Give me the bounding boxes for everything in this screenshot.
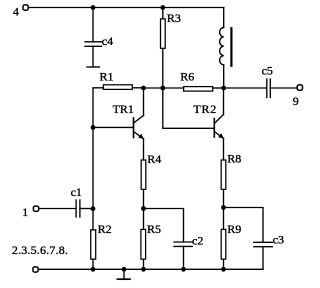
svg-text:c4: c4 [102, 34, 113, 48]
terminal 9 [297, 85, 302, 90]
node R2 bottom [91, 267, 96, 272]
wire left column vertical [92, 127, 94, 229]
svg-text:c5: c5 [262, 64, 273, 78]
svg-text:4: 4 [13, 5, 19, 19]
wire to c5 [224, 87, 267, 89]
node R3 bottom [160, 86, 165, 91]
node coil bottom [221, 86, 226, 91]
resistor R5 [141, 229, 146, 259]
capacitor c4 [85, 42, 102, 47]
svg-text:R5: R5 [147, 222, 161, 236]
wire top rail [29, 7, 223, 9]
resistor R2 [91, 230, 96, 259]
svg-text:R6: R6 [180, 70, 194, 84]
node c1-R2 [91, 206, 96, 211]
wire c3 branch horizontal [224, 208, 264, 243]
wire TR2 emitter vertical [223, 138, 225, 159]
svg-text:R1: R1 [100, 69, 114, 83]
svg-text:R8: R8 [227, 151, 241, 165]
resistor R3 [161, 19, 166, 48]
c4 end bar [87, 66, 100, 68]
node R4-R5 [141, 206, 146, 211]
wire R2 bottom lead [92, 260, 94, 270]
svg-text:c2: c2 [192, 234, 203, 248]
inductor coil [220, 28, 224, 65]
wire TR1 collector vertical [143, 88, 145, 116]
svg-text:c1: c1 [71, 185, 82, 199]
svg-text:TR2: TR2 [193, 102, 217, 116]
wire R1 left vertical top corner [93, 88, 103, 128]
node R5 bottom [141, 267, 146, 272]
capacitor c3 [254, 242, 272, 246]
wire c4 branch lower [92, 46, 94, 67]
node c2 bottom [181, 267, 186, 272]
node c4 top [91, 5, 96, 10]
node R9 bottom [221, 267, 226, 272]
node R3 top [160, 5, 165, 10]
svg-text:c3: c3 [273, 232, 284, 246]
wire R5 top lead [143, 209, 145, 230]
wire R1 right lead [133, 87, 144, 89]
transistor TR1 [134, 116, 144, 140]
capacitor c2 [174, 242, 192, 246]
wire TR2 base vertical [163, 88, 215, 128]
transistor TR2 [214, 115, 224, 139]
wire c2 branch horizontal [144, 209, 184, 243]
wire c4 branch upper [92, 8, 94, 42]
wire R8 bottom lead [223, 190, 225, 208]
resistor R8 [221, 160, 226, 189]
node R1 right [141, 86, 146, 91]
wire R6 left lead [163, 87, 183, 89]
wire R3 top lead [162, 8, 164, 19]
svg-text:R9: R9 [227, 222, 241, 236]
resistor R4 [141, 160, 146, 189]
wire TR2 collector vertical [223, 88, 225, 115]
wire bottom rail [38, 268, 263, 270]
terminal 1 [33, 206, 38, 211]
terminal gnd left [33, 267, 38, 272]
svg-text:1: 1 [22, 205, 28, 219]
resistor R6 [184, 87, 213, 92]
wire R9 top lead [223, 208, 225, 230]
wire c1 to node [80, 208, 93, 210]
wire top rail corner down to coil [223, 8, 225, 28]
svg-text:2.3.5.6.7.8.: 2.3.5.6.7.8. [12, 243, 68, 257]
resistor R1 [103, 85, 132, 90]
capacitor c5 [267, 79, 271, 98]
wire row R1-to-R3col [144, 87, 163, 89]
wire R4 bottom lead [143, 190, 145, 209]
wire TR1 emitter vertical [143, 139, 145, 160]
capacitor c1 [76, 200, 80, 217]
svg-text:9: 9 [293, 94, 299, 108]
svg-text:R2: R2 [98, 222, 112, 236]
wire terminal1 to c1 [40, 208, 77, 210]
wire TR1 base [93, 126, 134, 128]
svg-text:TR1: TR1 [113, 102, 134, 116]
wire R5 bottom lead [143, 260, 145, 270]
svg-text:R4: R4 [147, 152, 161, 166]
wire R3 bottom lead [162, 49, 164, 88]
wire R6 right lead [213, 87, 224, 89]
wire R9 bottom lead [223, 260, 225, 270]
terminal 4 [23, 5, 28, 10]
wire c2 bottom lead [183, 246, 185, 269]
ground [117, 269, 130, 279]
inductor core bar [230, 28, 232, 66]
node R8-R9 [221, 205, 226, 210]
node ground tap [122, 267, 127, 272]
node TR1 base tap [91, 125, 96, 130]
resistor R9 [221, 229, 226, 259]
wire c5 to terminal 9 [270, 87, 297, 89]
svg-text:R3: R3 [167, 11, 181, 25]
wire coil bottom lead [223, 65, 225, 88]
wire c3 bottom lead [262, 247, 264, 270]
